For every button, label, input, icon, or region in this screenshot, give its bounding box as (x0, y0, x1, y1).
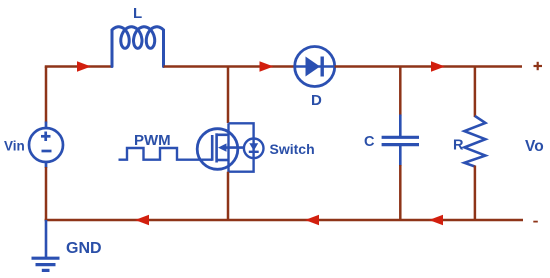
transistor Q1 mosfet (197, 129, 244, 170)
svg-text:L: L (133, 5, 142, 22)
wire resistor branch upper (474, 67, 477, 118)
arrow bottom rail 1 (135, 215, 149, 225)
wire mosfet branch lower (227, 172, 230, 220)
inductor L (112, 27, 164, 67)
svg-text:Vin: Vin (4, 138, 25, 153)
wire mosfet branch upper (227, 67, 230, 124)
svg-text:Vo: Vo (525, 138, 544, 155)
switch symbol (244, 139, 264, 159)
svg-text:Switch: Switch (270, 141, 315, 157)
svg-text:GND: GND (66, 240, 102, 257)
ground (32, 220, 60, 270)
source Vin (29, 122, 63, 169)
wire top rail middle segment (164, 65, 296, 68)
label minus output (533, 221, 538, 223)
label plus output (534, 62, 543, 70)
svg-text:R: R (453, 138, 464, 154)
svg-text:C: C (364, 134, 375, 150)
arrow bottom rail 3 (429, 215, 443, 225)
arrow top rail 2 (260, 61, 274, 71)
wire resistor branch lower (474, 166, 477, 221)
wire capacitor branch upper (399, 67, 402, 117)
capacitor C (382, 115, 419, 167)
svg-text:PWM: PWM (134, 132, 171, 149)
wire left vertical upper (45, 67, 48, 123)
svg-text:D: D (311, 92, 322, 109)
wire left vertical lower (45, 167, 48, 221)
resistor R (464, 116, 485, 167)
arrow bottom rail 2 (305, 215, 319, 225)
wire capacitor branch lower (399, 165, 402, 220)
wire top rail right segment (335, 65, 522, 68)
wire mosfet drain-source vertical and link to switch (229, 123, 254, 171)
arrow top rail 3 (431, 61, 445, 71)
arrow top rail 1 (77, 61, 91, 71)
wire bottom rail (45, 219, 523, 222)
diode D (295, 47, 335, 87)
pwm source waveform (119, 148, 213, 160)
wire top rail left segment (46, 67, 112, 69)
